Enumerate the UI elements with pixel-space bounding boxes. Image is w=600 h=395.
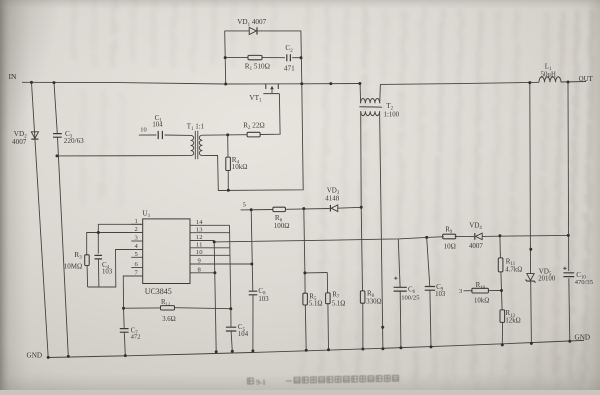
svg-text:IN: IN (9, 72, 18, 81)
wire jog R5 to R7 (305, 272, 327, 274)
capacitor C8 (103) (249, 210, 269, 351)
capacitor C1 (104) (152, 114, 163, 139)
svg-text:GND: GND (27, 351, 43, 359)
capacitor C6 (100/25) (394, 239, 421, 347)
transistor VT1 (power MOSFET on rail) (249, 84, 279, 104)
diode VD3 (4148) (325, 187, 361, 212)
svg-text:UC3845: UC3845 (145, 287, 172, 296)
inductor L1 (50uH) (539, 62, 561, 82)
wire snubber right vertical (300, 31, 303, 84)
resistor R9 (10 ohm) (443, 225, 456, 250)
svg-text:11: 11 (196, 242, 202, 249)
svg-text:472: 472 (131, 333, 141, 340)
wire snubber left vertical (225, 31, 226, 84)
pins 14-8 stubs and numbers (right side) (190, 219, 251, 274)
wire snubber middle (R1 C2 branch) (225, 57, 301, 59)
resistor R2 (22 ohm) (243, 122, 265, 137)
caption: figure 9-1 title (247, 375, 398, 387)
wire switch-node rail (T2 to L1) (380, 82, 539, 84)
resistor R12 (3.6 ohm) and wire (124, 299, 231, 323)
svg-text:104: 104 (152, 121, 163, 128)
svg-text:20100: 20100 (538, 276, 556, 283)
svg-text:14: 14 (196, 219, 203, 226)
svg-text:10Ω: 10Ω (444, 243, 456, 251)
svg-text:9-1: 9-1 (256, 377, 266, 386)
wire T2 secondary right down to GND (380, 111, 383, 348)
capacitor C2 (471) (284, 44, 295, 72)
capacitor C10 (470/35 output) (563, 82, 594, 341)
svg-text:4.7kΩ: 4.7kΩ (505, 266, 522, 273)
svg-text:3.6Ω: 3.6Ω (162, 316, 176, 323)
svg-text:10kΩ: 10kΩ (232, 163, 248, 171)
svg-text:103: 103 (102, 269, 113, 276)
wire sense node down to R5/R7 (304, 209, 305, 273)
svg-text:471: 471 (284, 65, 295, 73)
wire GND rail (48, 340, 584, 357)
capacitor C9 (103) (425, 237, 446, 347)
resistor R3 (10M) (64, 251, 89, 287)
svg-text:50μH: 50μH (541, 72, 556, 79)
svg-text:10: 10 (140, 126, 146, 133)
diode VD4 (4007) (469, 222, 484, 250)
wire pin2 to R3 (87, 233, 143, 255)
svg-text:103: 103 (435, 291, 446, 298)
svg-text:104: 104 (238, 331, 249, 338)
svg-text:220/63: 220/63 (64, 137, 84, 145)
op-amp U1 UC3845 PWM controller IC body (142, 209, 190, 297)
svg-text:GND: GND (575, 333, 591, 341)
resistor R6 (100 ohm) (251, 207, 329, 230)
wire node 5 stub (241, 202, 252, 210)
wire VT1 gate to R2 (260, 94, 280, 135)
svg-text:470/35: 470/35 (575, 279, 594, 286)
svg-text:330Ω: 330Ω (366, 298, 381, 305)
page edge shading (0, 0, 30, 390)
transformer T2 (1:100 current sense) (359, 84, 399, 119)
wire T2 secondary left down to VD3 node (360, 111, 363, 207)
wire C1 to T1 (165, 134, 191, 136)
junction dots on GND rail (47, 340, 572, 359)
wire T1 secondary bottom, down and right to source node (202, 84, 303, 191)
junction dots on IN/OUT rail (30, 81, 570, 86)
wire pin12/pin8 vertical to GND (214, 242, 216, 352)
pins 1-7 stubs and numbers (left side) (131, 218, 142, 277)
svg-text:12: 12 (196, 234, 203, 241)
resistor R1 (510 ohm) (245, 55, 270, 72)
resistor R13 (12k) (500, 291, 521, 345)
svg-text:1:100: 1:100 (384, 111, 400, 118)
wire C3 to T1 primary bottom (57, 155, 191, 157)
wire pin14/13/11/10 tie vertical to C5 (230, 225, 231, 308)
junction dots mid circuit (56, 56, 570, 329)
svg-text:10kΩ: 10kΩ (474, 297, 489, 304)
resistor R4 (10k) (226, 135, 248, 190)
capacitor C3 (220/63, input, vertical) (53, 83, 84, 357)
capacitor C7 (472) (120, 308, 141, 355)
svg-text:5.1Ω: 5.1Ω (332, 300, 346, 307)
svg-text:103: 103 (258, 296, 269, 303)
transformer T1 (1:1 gate drive) (187, 122, 205, 159)
wire T1 secondary top to R2 (202, 134, 247, 137)
resistor R7 (5.1 ohm) (326, 273, 346, 350)
svg-text:100/25: 100/25 (401, 295, 420, 302)
node 10 stub and label (139, 126, 157, 135)
svg-text:10: 10 (196, 249, 203, 256)
resistor R11 (4.7k) (498, 236, 522, 291)
svg-text:4007: 4007 (12, 138, 27, 146)
diode VD2 (4007, input, vertical) (12, 82, 48, 357)
wire IN rail (top power rail, IN to T2 primary) (22, 82, 360, 84)
resistor R10 (10k) with node 3 (459, 281, 502, 304)
wire OUT rail (after L1) (561, 81, 586, 84)
svg-text:4148: 4148 (325, 194, 340, 202)
wire pin1 to C4 (98, 224, 142, 253)
svg-text:13: 13 (196, 226, 203, 233)
wire R3/C4 bottom rail to pin4 (88, 250, 143, 288)
resistor R5 (5.1 ohm) (303, 273, 323, 350)
svg-text:12kΩ: 12kΩ (505, 318, 520, 325)
capacitor C5 (104) (226, 309, 249, 352)
svg-text:OUT: OUT (579, 76, 594, 83)
capacitor C4 (103) (95, 255, 113, 287)
svg-text:100Ω: 100Ω (274, 222, 290, 230)
wire pin12 feedback line to output (214, 235, 568, 242)
diode VD1 (4007, snubber) (237, 18, 266, 34)
svg-text:10MΩ: 10MΩ (64, 262, 82, 270)
svg-text:4007: 4007 (469, 242, 484, 250)
wire snubber top (VD1 branch) (225, 30, 301, 32)
resistor R8 (330 ohm burden) (360, 207, 381, 349)
diode VD5 (20100 schottky to GND) (526, 83, 556, 344)
wire pin7 down to C7 (123, 276, 142, 308)
svg-text:5.1Ω: 5.1Ω (309, 300, 323, 307)
